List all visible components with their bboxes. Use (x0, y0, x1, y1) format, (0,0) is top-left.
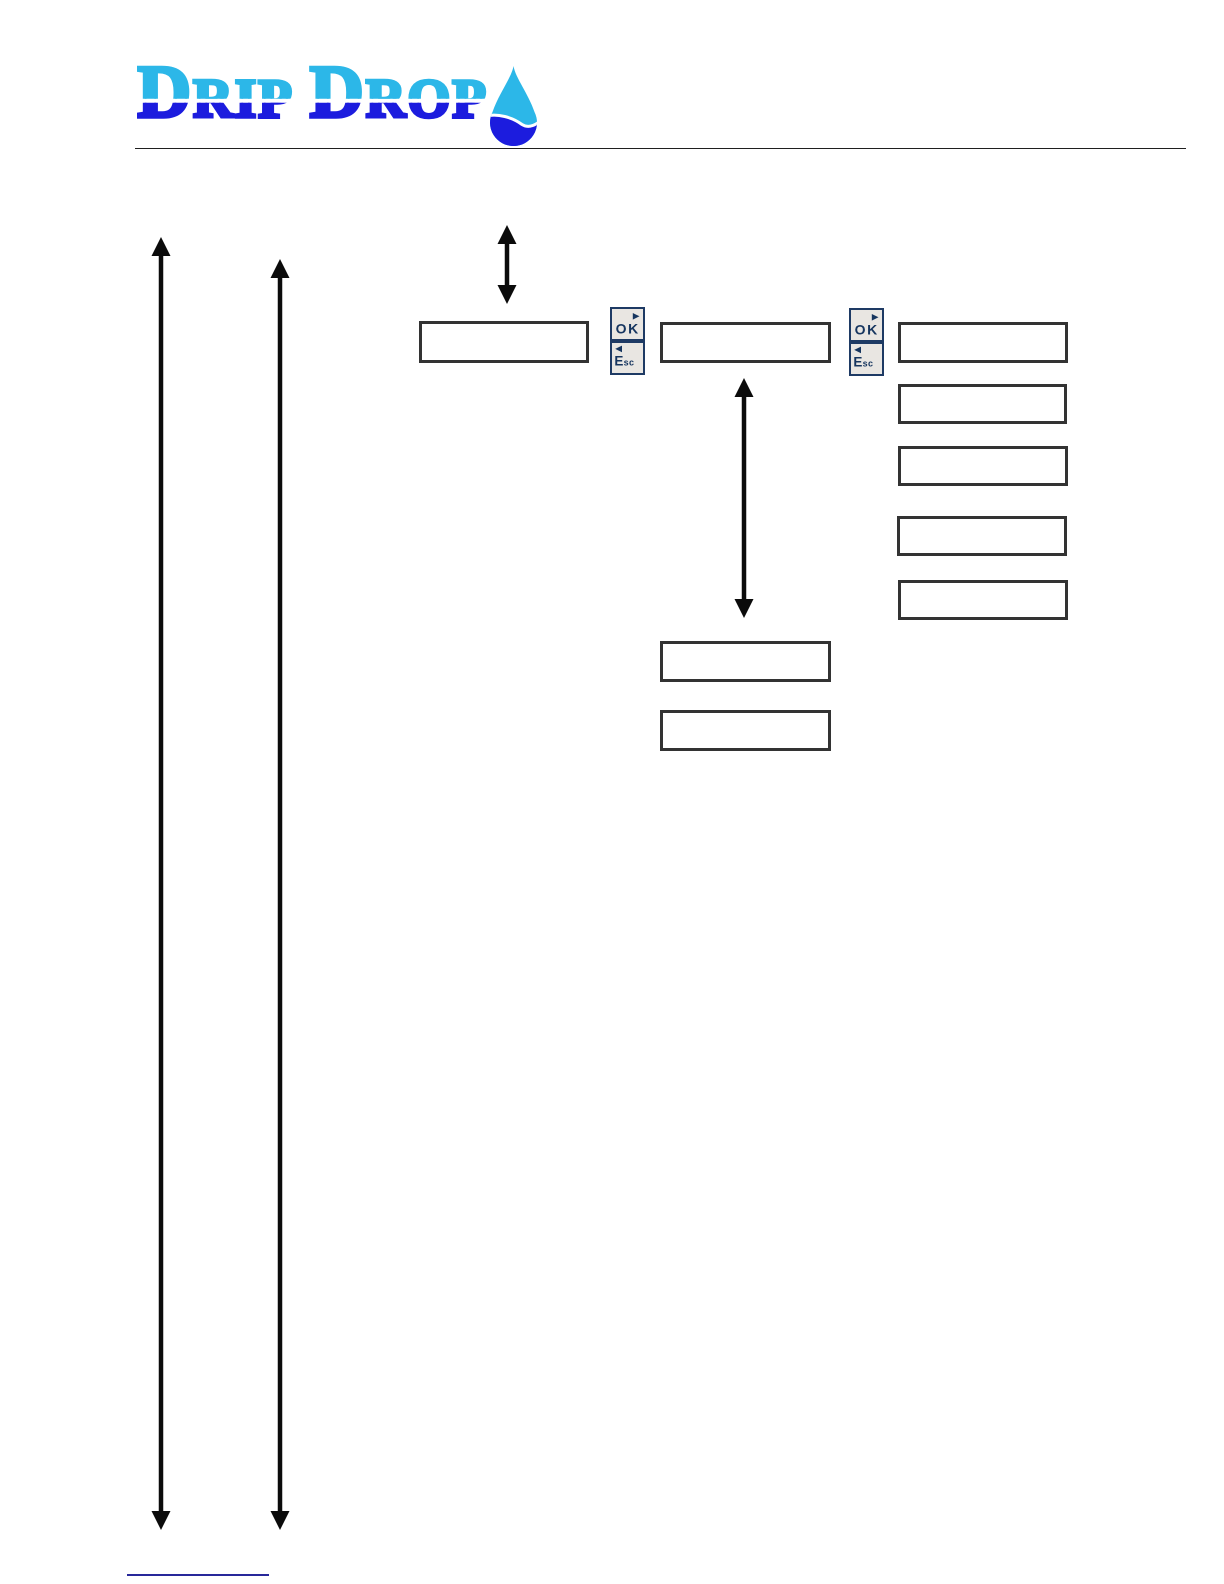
header horizontal rule (135, 148, 1186, 150)
svg-text:E: E (614, 354, 623, 369)
right column box C (898, 446, 1068, 486)
logo text "DRIP DROP" (light blue top half) (137, 55, 488, 136)
left tall double arrow 1 (151, 237, 171, 1530)
right column box E (898, 580, 1068, 620)
box 2 (menu level 2) (660, 322, 831, 363)
svg-text:OK: OK (855, 322, 879, 338)
right column box B (898, 384, 1067, 424)
right column box A (898, 322, 1068, 363)
Esc button 2 (849, 342, 884, 376)
left tall double arrow 2 (270, 259, 290, 1530)
OK button 1 (610, 307, 645, 341)
logo text "DRIP DROP" (dark blue bottom half) (137, 55, 488, 136)
Esc button 1 (610, 341, 645, 375)
svg-text:sc: sc (863, 359, 874, 369)
OK button 2 (849, 308, 884, 342)
svg-text:OK: OK (616, 321, 640, 337)
middle box 3 (660, 641, 831, 682)
logo water drop icon (490, 66, 537, 146)
footer navy line (127, 1574, 269, 1576)
middle box 4 (660, 710, 831, 751)
middle long double arrow (734, 378, 754, 618)
svg-text:sc: sc (624, 358, 635, 368)
svg-text:E: E (853, 355, 862, 370)
short double arrow above box 1 (497, 225, 517, 304)
box 1 (menu level 1) (419, 321, 589, 363)
right column box D (897, 516, 1067, 556)
